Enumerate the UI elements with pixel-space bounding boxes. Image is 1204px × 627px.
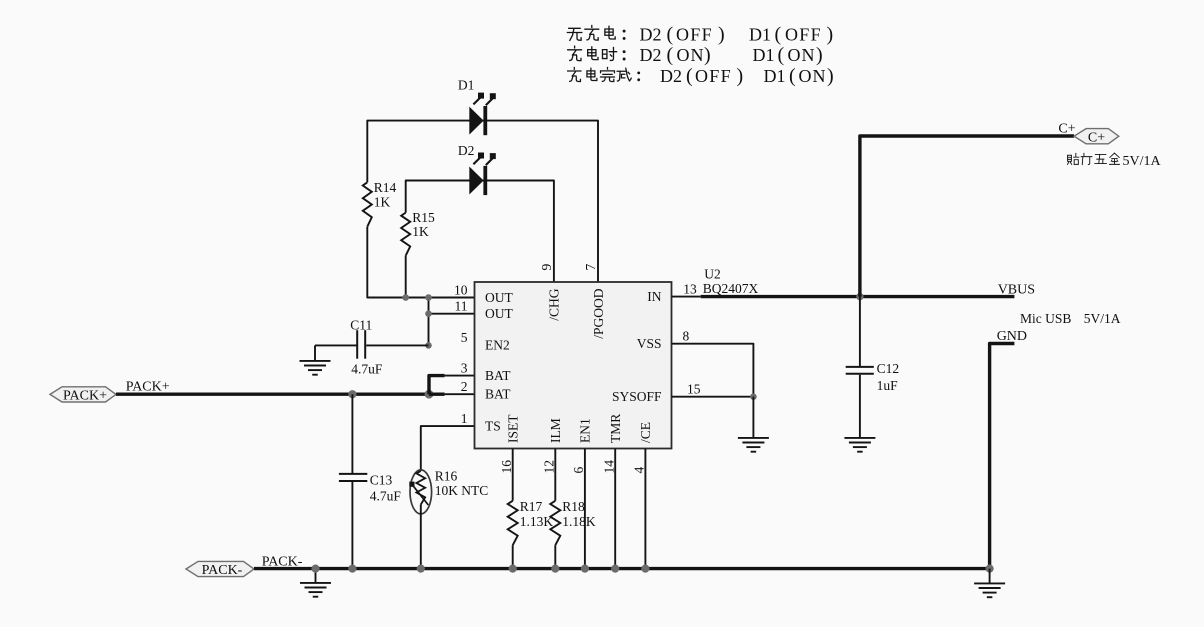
wire GND ground stub	[989, 569, 991, 584]
svg-text:9: 9	[539, 264, 554, 271]
svg-text:(: (	[775, 24, 782, 46]
svg-text:PACK+: PACK+	[126, 379, 170, 394]
svg-text:D1: D1	[749, 25, 771, 45]
wire PACK- ground stub	[315, 569, 317, 583]
LED D1	[458, 77, 496, 135]
wire PACK- bus	[254, 567, 990, 570]
ground at C11	[300, 361, 331, 375]
capacitor C12 1uF	[846, 297, 899, 438]
wire R14 bottom to OUT pin10	[367, 227, 474, 298]
svg-text:U2: U2	[704, 266, 721, 281]
svg-text:15: 15	[687, 382, 701, 397]
svg-text:4.7uF: 4.7uF	[351, 361, 383, 376]
wire R14 top to D1 anode to /PGOOD pin7	[367, 121, 598, 282]
capacitor C11 4.7uF	[350, 317, 383, 376]
wire /CE pin4	[644, 449, 646, 569]
svg-text:): )	[737, 65, 744, 87]
junction R15/pin10	[402, 294, 409, 301]
connector flag PACK-	[186, 561, 254, 578]
svg-text:VBUS: VBUS	[998, 283, 1035, 298]
svg-text:D2: D2	[640, 45, 662, 65]
svg-text:): )	[827, 65, 834, 87]
LED D2	[458, 143, 496, 195]
svg-text:): )	[704, 44, 711, 66]
svg-text:5V/1A: 5V/1A	[1123, 154, 1162, 169]
svg-text:ON: ON	[677, 45, 705, 65]
svg-text:ISET: ISET	[506, 414, 521, 443]
junction PACK+/BAT	[425, 390, 434, 399]
wire VBUS bus	[701, 295, 1015, 298]
wire ISET pin16 via R17	[512, 449, 514, 501]
svg-text:): )	[816, 44, 823, 66]
wire vertical pin10-pin11-EN2	[428, 298, 430, 346]
label U2 BQ2407X	[703, 266, 759, 296]
svg-text:PACK+: PACK+	[63, 389, 107, 404]
svg-text:R15: R15	[412, 210, 435, 225]
connector flag C+	[1074, 129, 1119, 146]
svg-text:ILM: ILM	[548, 418, 563, 443]
svg-text:(: (	[667, 24, 674, 46]
wire EN2 pin5 to C11	[366, 344, 428, 346]
svg-text:1K: 1K	[374, 194, 391, 209]
junction VSS/SYSOFF	[750, 393, 757, 400]
svg-text:3: 3	[461, 360, 468, 375]
svg-text:1K: 1K	[412, 224, 429, 239]
wire BAT pin3 bend	[429, 376, 445, 395]
wire SYSOFF pin15	[672, 396, 754, 398]
ground at C12	[844, 438, 875, 452]
svg-text:16: 16	[499, 460, 514, 474]
svg-text:OUT: OUT	[485, 306, 513, 321]
svg-text:D2: D2	[458, 143, 475, 158]
ground at GND net	[974, 583, 1005, 597]
wire ILM pin12 via R18	[554, 449, 556, 501]
svg-text:ON: ON	[788, 45, 816, 65]
svg-text:10K NTC: 10K NTC	[435, 483, 489, 498]
svg-text:8: 8	[683, 329, 690, 344]
wire PACK+ bus	[116, 393, 429, 396]
svg-text:4: 4	[632, 467, 647, 474]
junction PACK-/pin14	[611, 565, 619, 573]
svg-text:VSS: VSS	[637, 336, 662, 351]
svg-text:5: 5	[461, 330, 468, 345]
resistor R17 1.13K	[508, 499, 554, 545]
junction PACK-/pin6	[581, 565, 589, 573]
svg-text:13: 13	[683, 281, 697, 296]
svg-text:14: 14	[601, 460, 616, 474]
svg-text:OFF: OFF	[676, 25, 713, 45]
svg-text:D1: D1	[753, 45, 775, 65]
svg-text:1: 1	[461, 411, 468, 426]
svg-text:5V/1A: 5V/1A	[1084, 311, 1121, 326]
svg-text:6: 6	[571, 467, 586, 474]
svg-text:10: 10	[454, 282, 468, 297]
junction PACK-/R16	[417, 565, 425, 573]
capacitor C13 4.7uF	[339, 394, 401, 568]
resistor R15 1K	[401, 210, 435, 256]
svg-text:): )	[827, 24, 834, 46]
svg-text:R14: R14	[374, 180, 397, 195]
wire IN pin13 stub	[672, 296, 701, 298]
svg-text:SYSOFF: SYSOFF	[612, 389, 662, 404]
junction PACK-/GND net	[986, 565, 994, 573]
svg-text:): )	[718, 24, 725, 46]
svg-text:C11: C11	[350, 317, 372, 332]
svg-text:BAT: BAT	[485, 368, 511, 383]
junction PACK-/pin16	[509, 565, 517, 573]
wire EN1 pin6	[584, 449, 586, 569]
junction pin10/vertical	[425, 294, 432, 301]
svg-text:1.18K: 1.18K	[562, 514, 596, 529]
note charge-status line 2	[568, 44, 823, 66]
svg-text:OUT: OUT	[485, 290, 513, 305]
svg-text:11: 11	[455, 299, 468, 314]
junction PACK-/ground	[311, 565, 319, 573]
svg-text:D1: D1	[458, 77, 475, 92]
svg-text:D2: D2	[640, 25, 662, 45]
wire GND net	[990, 344, 1015, 569]
svg-text:BAT: BAT	[485, 386, 511, 401]
junction PACK-/pin12	[551, 565, 559, 573]
svg-text:ON: ON	[799, 66, 827, 86]
ground at VSS/SYSOFF	[738, 438, 769, 452]
resistor R18 1.18K	[550, 499, 596, 545]
svg-text:(: (	[686, 65, 693, 87]
svg-text:/PGOOD: /PGOOD	[591, 288, 606, 339]
svg-text:OFF: OFF	[785, 25, 822, 45]
svg-text:EN2: EN2	[485, 338, 510, 353]
wire R15 bottom to pin10 net	[405, 256, 407, 298]
svg-text:EN1: EN1	[578, 418, 593, 443]
svg-text:C+: C+	[1058, 122, 1075, 137]
svg-text:OFF: OFF	[695, 66, 732, 86]
resistor R14 1K	[363, 180, 397, 227]
wire OUT pin11 stub	[429, 313, 475, 315]
svg-text:PACK-: PACK-	[202, 563, 243, 578]
svg-text:4.7uF: 4.7uF	[370, 488, 402, 503]
svg-text:Mic USB: Mic USB	[1020, 311, 1071, 326]
svg-text:BQ2407X: BQ2407X	[703, 281, 759, 296]
svg-text:TS: TS	[485, 418, 501, 433]
wire C11 to ground	[315, 344, 357, 346]
junction EN2/C11	[425, 342, 432, 349]
wire R15 top to D2 anode to /CHG pin9	[406, 181, 554, 283]
svg-text:(: (	[667, 44, 674, 66]
wire VSS pin8	[672, 344, 754, 397]
junction pin11/vertical	[425, 310, 432, 317]
junction PACK+/C13	[348, 390, 356, 398]
svg-text:R16: R16	[435, 469, 458, 484]
thermistor R16 10K NTC	[409, 469, 488, 569]
svg-text:TMR: TMR	[608, 414, 623, 443]
wire TMR pin14	[614, 449, 616, 569]
note charge-status line 1	[567, 24, 833, 46]
svg-text:1uF: 1uF	[877, 378, 899, 393]
wire SYSOFF to ground	[752, 397, 754, 438]
svg-text:12: 12	[541, 460, 556, 474]
svg-text:D1: D1	[764, 66, 786, 86]
svg-text:/CHG: /CHG	[547, 288, 562, 321]
note charge-status line 3	[568, 65, 834, 87]
wire TS pin1 to R16	[421, 426, 475, 471]
ground at PACK-	[300, 583, 331, 597]
svg-text:IN: IN	[647, 289, 661, 304]
junction PACK-/C13	[348, 565, 356, 573]
svg-text:C+: C+	[1088, 130, 1105, 145]
svg-text:C12: C12	[877, 361, 900, 376]
wire riser to C+	[860, 136, 1074, 297]
connector flag PACK+	[50, 387, 116, 404]
svg-text:R17: R17	[520, 499, 543, 514]
svg-text:(: (	[778, 44, 785, 66]
wire BAT pin2	[429, 393, 445, 396]
junction VBUS/C12 riser	[856, 293, 863, 300]
junction PACK-/pin4	[641, 565, 649, 573]
label 贴片五金 5V/1A	[1068, 153, 1162, 169]
svg-text:1.13K: 1.13K	[520, 514, 554, 529]
svg-text:D2: D2	[660, 66, 682, 86]
svg-text:/CE: /CE	[638, 422, 653, 443]
svg-text:2: 2	[461, 379, 468, 394]
op-amp U2 BQ2407X charger IC body	[475, 282, 672, 449]
svg-text:R18: R18	[562, 499, 585, 514]
svg-text:(: (	[789, 65, 796, 87]
svg-text:C13: C13	[370, 472, 393, 487]
svg-text:7: 7	[583, 264, 598, 271]
